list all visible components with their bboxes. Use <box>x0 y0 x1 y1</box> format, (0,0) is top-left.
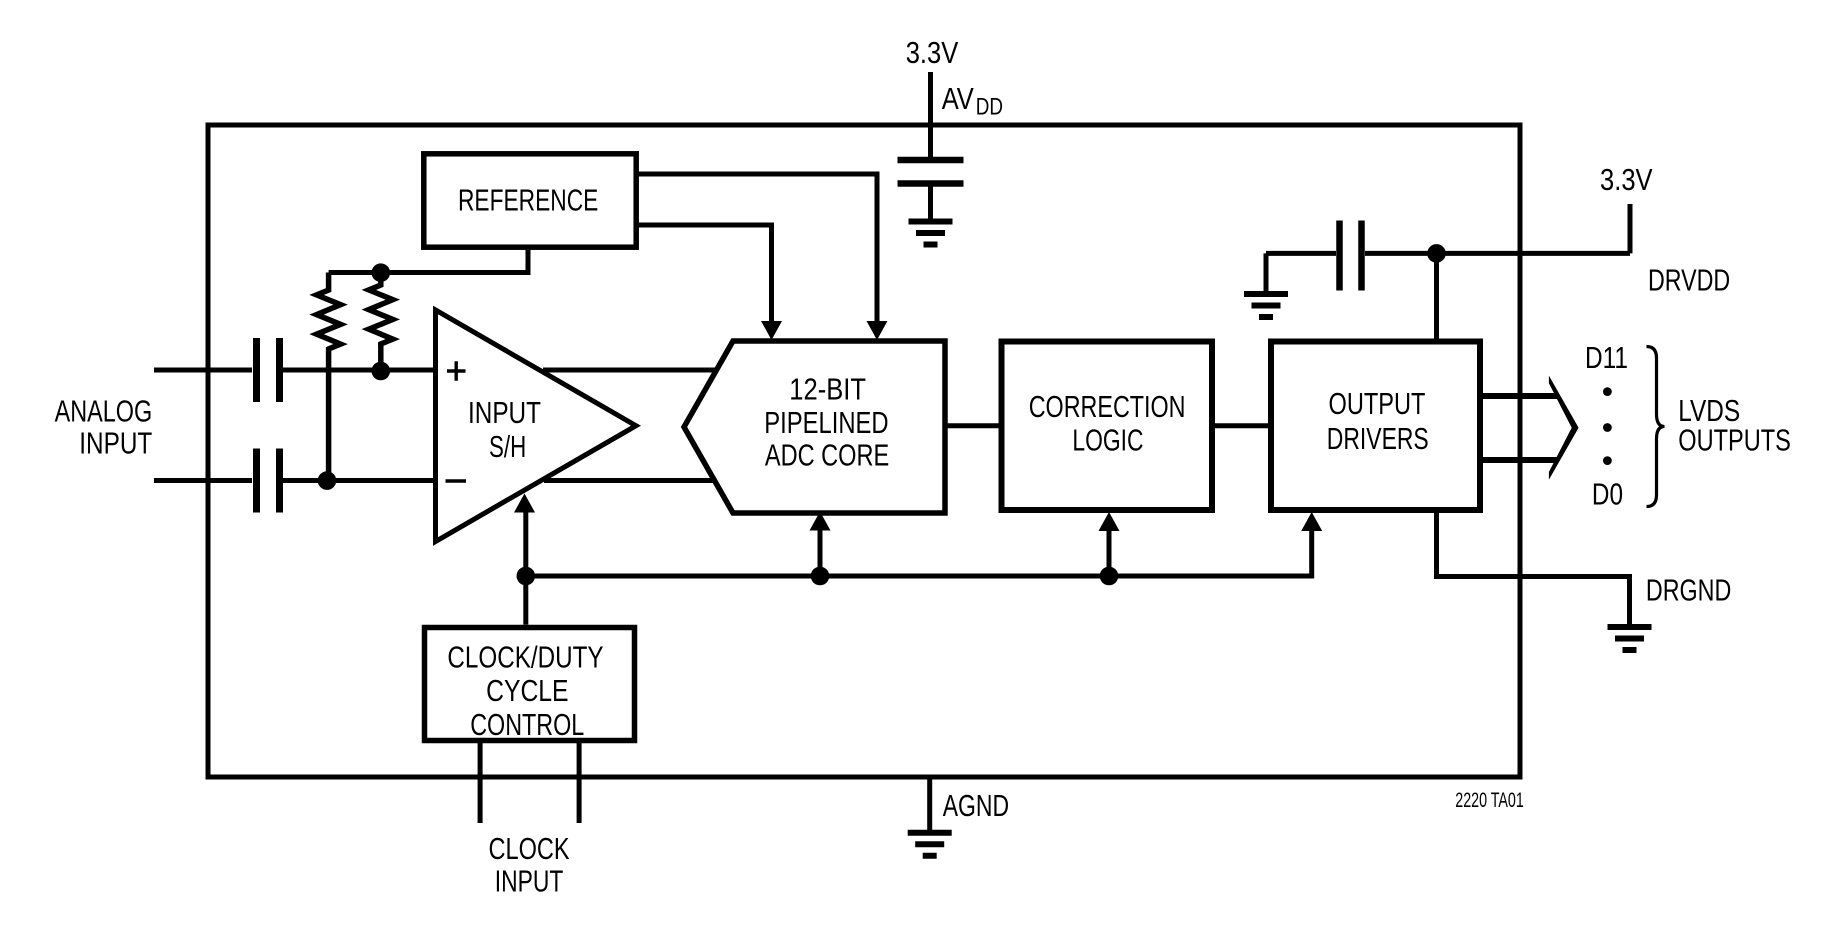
svg-text:PIPELINED: PIPELINED <box>764 405 888 440</box>
svg-text:DRVDD: DRVDD <box>1648 262 1730 297</box>
svg-text:CORRECTION: CORRECTION <box>1029 389 1186 424</box>
svg-text:3.3V: 3.3V <box>1600 163 1653 198</box>
svg-text:CLOCK: CLOCK <box>489 831 571 866</box>
svg-text:DRIVERS: DRIVERS <box>1327 421 1429 456</box>
svg-text:ADC CORE: ADC CORE <box>765 437 889 472</box>
svg-text:DD: DD <box>976 92 1003 120</box>
svg-text:AGND: AGND <box>943 787 1009 822</box>
svg-text:12-BIT: 12-BIT <box>789 372 866 407</box>
svg-text:INPUT: INPUT <box>79 426 152 460</box>
svg-text:OUTPUTS: OUTPUTS <box>1678 422 1791 457</box>
svg-text:CLOCK/DUTY: CLOCK/DUTY <box>447 640 603 675</box>
svg-text:CYCLE: CYCLE <box>486 673 568 707</box>
svg-text:OUTPUT: OUTPUT <box>1329 386 1426 421</box>
svg-text:INPUT: INPUT <box>468 395 541 429</box>
svg-text:REFERENCE: REFERENCE <box>458 182 598 217</box>
svg-text:S/H: S/H <box>489 429 526 463</box>
svg-text:ANALOG: ANALOG <box>55 393 153 428</box>
svg-text:2220 TA01: 2220 TA01 <box>1455 788 1523 811</box>
svg-text:LOGIC: LOGIC <box>1072 422 1143 457</box>
svg-text:CONTROL: CONTROL <box>470 707 584 742</box>
svg-text:INPUT: INPUT <box>495 863 564 898</box>
svg-text:D11: D11 <box>1585 340 1628 374</box>
svg-text:D0: D0 <box>1592 477 1623 511</box>
svg-text:DRGND: DRGND <box>1646 572 1731 607</box>
svg-text:AV: AV <box>942 81 974 116</box>
svg-text:3.3V: 3.3V <box>906 36 959 71</box>
